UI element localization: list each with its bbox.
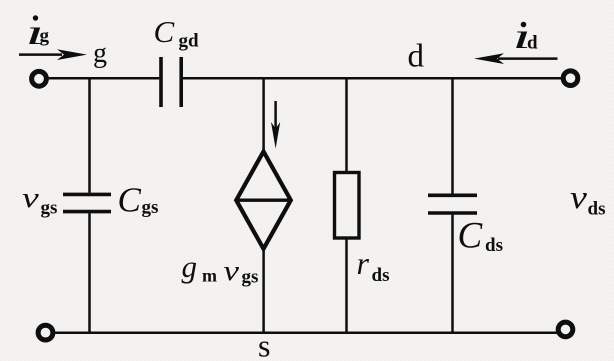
terminal source left (bottom-left open circle) [38, 325, 53, 340]
value label g_m v_gs [182, 249, 259, 288]
svg-text:v: v [570, 178, 587, 215]
svg-text:v: v [22, 182, 39, 214]
svg-text:gs: gs [41, 198, 58, 219]
svg-text:d: d [408, 39, 425, 75]
value label r_ds [357, 245, 390, 286]
wire top rail left segment (gate circle to Cgd left plate) [49, 77, 160, 80]
capacitor C_ds plates [428, 195, 477, 213]
svg-text:C: C [154, 14, 175, 49]
wire left branch lower (Cgs down to bottom rail) [88, 213, 91, 334]
value label C_ds [458, 216, 503, 257]
voltage label v_ds [570, 178, 605, 219]
wire Cds branch upper (top rail to Cds) [451, 77, 454, 194]
svg-text:gs: gs [242, 267, 259, 288]
wire bottom rail [55, 331, 558, 334]
svg-text:d: d [527, 33, 538, 54]
svg-text:ds: ds [588, 199, 606, 220]
svg-text:g: g [40, 26, 50, 47]
current arrow i_d (pointing left) [474, 53, 558, 64]
svg-text:v: v [224, 254, 240, 287]
voltage label v_gs [22, 182, 57, 219]
svg-text:C: C [118, 181, 142, 220]
resistor r_ds (rectangle) [335, 173, 360, 239]
value label C_gs [118, 181, 159, 220]
wire source branch upper (top rail to diamond top) [262, 77, 265, 152]
wire left branch upper (g node down to Cgs) [88, 77, 91, 193]
svg-text:m: m [202, 266, 217, 286]
terminal gate (top-left open circle) [32, 71, 47, 86]
wire rds branch lower (resistor bottom to bottom rail) [345, 239, 348, 334]
capacitor C_gd plates [161, 57, 181, 107]
wire source branch lower (diamond bottom to bottom rail) [262, 249, 265, 334]
svg-text:gd: gd [179, 31, 200, 52]
terminal source right (bottom-right open circle) [558, 322, 573, 337]
terminal drain (top-right open circle) [563, 71, 578, 86]
svg-text:C: C [458, 216, 484, 257]
wire top rail right segment (Cgd right plate to drain circle) [183, 77, 561, 80]
wire rds branch upper (top rail to resistor top) [345, 77, 348, 172]
current arrow i_g (pointing right) [19, 49, 87, 60]
wire Cds branch lower (Cds to bottom rail) [451, 215, 454, 334]
capacitor C_gs plates [63, 194, 111, 211]
current label i_d [513, 16, 539, 56]
svg-text:ds: ds [485, 235, 503, 256]
svg-text:r: r [357, 245, 370, 281]
svg-text:ds: ds [372, 265, 390, 286]
svg-text:g: g [93, 38, 107, 69]
current label i_g [26, 12, 50, 52]
value label C_gd [154, 14, 200, 52]
svg-text:g: g [182, 249, 198, 284]
svg-text:s: s [258, 328, 270, 361]
svg-text:gs: gs [142, 197, 159, 218]
current direction arrow of source (pointing down) [271, 101, 280, 149]
dependent current source G1 (diamond) [236, 152, 291, 249]
